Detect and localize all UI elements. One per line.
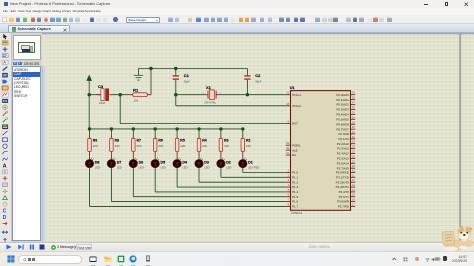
LED D6 (129, 155, 144, 170)
svg-text:R1: R1 (133, 87, 139, 92)
pin P0.3/AD3 (36) (336, 105, 355, 111)
resistor R9 (87, 128, 97, 155)
wire X1 pin2 to XTAL1 (219, 93, 285, 95)
node: rail / R5 (175, 127, 178, 130)
svg-text:R4: R4 (202, 138, 207, 142)
resistor R4 (197, 128, 207, 155)
svg-text:LED-: LED- (226, 165, 232, 169)
svg-text:C: C (3, 208, 7, 214)
wire VCC to C3 (89, 93, 100, 95)
status bar (0, 242, 474, 251)
svg-text:P3.4/T0: P3.4/T0 (338, 190, 349, 194)
op IC U1 AT89C51 body (290, 90, 350, 210)
pin P3.3/INT1 (13) (335, 183, 355, 189)
title bar (0, 0, 474, 8)
menu bar (0, 8, 474, 15)
svg-text:D2: D2 (226, 160, 231, 164)
pin P2.5/A13 (26) (336, 154, 355, 160)
node: R1/ground rail (149, 66, 152, 69)
svg-text:P1.5: P1.5 (292, 194, 298, 198)
svg-text:220: 220 (92, 144, 97, 148)
node: rail / R7 (131, 127, 134, 130)
svg-text:EA: EA (292, 153, 296, 157)
pin P2.6/A14 (27) (336, 159, 355, 165)
svg-text:220: 220 (158, 144, 163, 148)
svg-text:LED-: LED- (182, 165, 188, 169)
pin P3.6/WR (16) (337, 197, 355, 203)
ground symbol (133, 68, 142, 80)
svg-text:P0.5/AD5: P0.5/AD5 (336, 117, 349, 121)
node: rail / R2 (241, 127, 244, 130)
pin P2.3/A11 (24) (337, 144, 355, 150)
resistor R3 (219, 128, 229, 155)
svg-text:220: 220 (246, 144, 251, 148)
svg-text:P3.2/INT0: P3.2/INT0 (335, 180, 349, 184)
svg-text:LED-: LED- (204, 165, 210, 169)
pin P2.4/A12 (25) (336, 149, 355, 155)
svg-text:R6: R6 (158, 138, 163, 142)
svg-text:A: A (3, 163, 7, 169)
svg-text:P2.2/A10: P2.2/A10 (336, 141, 348, 145)
svg-text:D6: D6 (138, 160, 143, 164)
svg-text:220: 220 (136, 144, 141, 148)
wire XTAL2 net (174, 94, 176, 105)
pin P0.2/AD2 (37) (336, 100, 355, 106)
svg-text:D: D (3, 215, 7, 221)
pin P0.1/AD1 (38) (336, 95, 355, 101)
capacitor C2 (244, 68, 262, 94)
svg-text:220: 220 (180, 144, 185, 148)
pin P2.7/A15 (28) (336, 164, 355, 170)
svg-text:P1.4: P1.4 (292, 190, 298, 194)
wire D6 to P1.5 (132, 170, 134, 197)
pin P3.1/TXD (11) (336, 173, 355, 179)
svg-text:C3: C3 (98, 84, 104, 89)
svg-text:P0.4/AD4: P0.4/AD4 (336, 112, 349, 116)
svg-text:C2: C2 (255, 73, 261, 78)
resistor R2 (241, 128, 251, 155)
pin ALE (30) (285, 146, 297, 152)
svg-text:P1.0: P1.0 (292, 170, 298, 174)
object selector panel (12, 33, 42, 243)
svg-text:XTAL2: XTAL2 (292, 104, 301, 108)
LED supply rail (89, 127, 243, 129)
node: rail / R9 (87, 127, 90, 130)
svg-text:10k: 10k (133, 98, 138, 102)
node: rail / R8 (109, 127, 112, 130)
svg-text:AT89C51: AT89C51 (290, 210, 302, 214)
tab bar (0, 24, 474, 33)
svg-text:R7: R7 (136, 138, 141, 142)
resistor R1 (129, 87, 151, 102)
pin P2.0/A8 (21) (338, 129, 355, 135)
svg-text:220: 220 (114, 144, 119, 148)
pin P3.4/T0 (14) (338, 187, 355, 193)
wire VCC vertical to LED rail (88, 94, 90, 128)
svg-text:P3.0/RXD: P3.0/RXD (335, 170, 348, 174)
svg-text:P2.1/A9: P2.1/A9 (338, 137, 349, 141)
pin XTAL2 (18) (285, 101, 300, 107)
svg-text:P3.6/WR: P3.6/WR (337, 199, 349, 203)
svg-text:P0.2/AD2: P0.2/AD2 (336, 102, 349, 106)
svg-text:R5: R5 (180, 138, 185, 142)
pin P2.2/A10 (23) (336, 139, 355, 145)
svg-text:R2: R2 (246, 138, 251, 142)
wire D4 to P1.3 (176, 170, 178, 187)
pin P1.7 (8) (285, 202, 298, 208)
svg-text:XTAL1: XTAL1 (292, 92, 301, 96)
svg-text:P3.3/INT1: P3.3/INT1 (335, 185, 349, 189)
pin P2.1/A9 (22) (338, 134, 355, 140)
svg-text:U1: U1 (289, 85, 294, 89)
svg-text:30pF: 30pF (255, 79, 261, 83)
pin P3.5/T1 (15) (338, 192, 355, 198)
sheet top edge (42, 32, 474, 34)
wire crystal net: C1 to X1 pin1 (175, 93, 204, 95)
pin P3.0/RXD (10) (335, 168, 355, 174)
svg-text:LED-: LED- (116, 165, 122, 169)
resistor R7 (131, 128, 141, 155)
LED D8 (85, 155, 100, 170)
node: C2 bottom / XTAL1 net (245, 93, 248, 96)
svg-text:P3.1/TXD: P3.1/TXD (336, 175, 349, 179)
node: rail / R6 (153, 127, 156, 130)
pin RST (9) (285, 119, 297, 125)
LED D4 (173, 155, 188, 170)
pin P1.4 (5) (285, 187, 298, 193)
schematic canvas (42, 33, 474, 243)
svg-text:P0.3/AD3: P0.3/AD3 (336, 107, 349, 111)
LED D7 (107, 155, 122, 170)
resistor R5 (175, 128, 185, 155)
svg-text:C1: C1 (183, 73, 189, 78)
svg-text:D4: D4 (182, 160, 187, 164)
svg-text:P3.5/T1: P3.5/T1 (338, 194, 349, 198)
svg-text:P1.2: P1.2 (292, 180, 298, 184)
svg-text:P0.1/AD1: P0.1/AD1 (336, 97, 349, 101)
wire RST net (119, 94, 121, 123)
svg-text:D7: D7 (116, 160, 121, 164)
svg-text:P1.1: P1.1 (292, 175, 298, 179)
LED D1 (238, 155, 259, 170)
svg-text:P2.3/A11: P2.3/A11 (337, 146, 349, 150)
pin P0.6/AD6 (33) (336, 120, 355, 126)
pin XTAL1 (19) (285, 90, 300, 96)
node: rail / R3 (219, 127, 222, 130)
svg-text:LED-: LED- (94, 165, 100, 169)
svg-text:LED-: LED- (160, 165, 166, 169)
LED D3 (194, 155, 209, 170)
svg-text:P3.7/RD: P3.7/RD (337, 204, 348, 208)
svg-text:PSEN: PSEN (292, 143, 300, 147)
LED D5 (151, 155, 166, 170)
pin P1.1 (2) (285, 173, 298, 179)
wire D7 to P1.6 (110, 170, 112, 202)
svg-text:LED-RED: LED-RED (248, 165, 260, 169)
node: C1 / ground rail (174, 66, 177, 69)
svg-text:220: 220 (202, 144, 207, 148)
svg-text:R8: R8 (114, 138, 119, 142)
node: RST net junction (118, 93, 121, 96)
svg-text:P2.6/A14: P2.6/A14 (336, 161, 348, 165)
node: C1 bottom / XTAL2 net (174, 93, 177, 96)
pin P1.3 (4) (285, 183, 298, 189)
svg-text:D8: D8 (94, 160, 99, 164)
svg-text:30pF: 30pF (183, 79, 189, 83)
svg-text:P0.6/AD6: P0.6/AD6 (336, 122, 349, 126)
pin P0.7/AD7 (32) (336, 125, 355, 131)
desktop pet dog (440, 223, 474, 251)
wire R1 up to ground rail (150, 68, 152, 94)
windows taskbar (0, 251, 474, 266)
svg-text:D1: D1 (248, 160, 253, 164)
svg-text:LED-: LED- (138, 165, 144, 169)
svg-text:RST: RST (292, 121, 298, 125)
power terminal VCC (86, 75, 91, 94)
svg-text:R9: R9 (92, 138, 97, 142)
wire D3 to P1.2 (198, 170, 200, 182)
svg-text:A: A (3, 59, 6, 64)
wire D2 to P1.1 (219, 170, 221, 177)
crystal X1 (202, 85, 221, 104)
wire D5 to P1.4 (154, 170, 156, 192)
pin EA (31) (285, 151, 295, 157)
svg-text:X1: X1 (206, 85, 212, 90)
svg-text:ALE: ALE (292, 148, 298, 152)
svg-text:P1.3: P1.3 (292, 185, 298, 189)
svg-text:P2.5/A13: P2.5/A13 (336, 156, 348, 160)
node: VCC / C3 junction (87, 93, 90, 96)
capacitor C1 (172, 68, 190, 94)
svg-text:CRYSTAL: CRYSTAL (204, 100, 216, 104)
resistor R6 (153, 128, 163, 155)
resistor R8 (109, 128, 119, 155)
svg-text:P0.7/AD7: P0.7/AD7 (336, 127, 349, 131)
svg-text:D5: D5 (160, 160, 165, 164)
capacitor C3 (electrolytic) (96, 84, 112, 105)
pin P0.4/AD4 (35) (336, 110, 355, 116)
svg-text:R3: R3 (224, 138, 229, 142)
pin P0.0/AD0 (39) (336, 90, 355, 96)
wire D1 to P1.0 (241, 170, 243, 173)
svg-text:P1.7: P1.7 (292, 204, 298, 208)
svg-text:220: 220 (224, 144, 229, 148)
svg-text:10uF: 10uF (99, 100, 106, 104)
pin PSEN (29) (285, 141, 299, 147)
LED D2 (216, 155, 231, 170)
svg-text:P0.0/AD0: P0.0/AD0 (336, 92, 349, 96)
pin P3.7/RD (17) (337, 202, 355, 208)
sheet right border (459, 33, 461, 242)
svg-text:P1.6: P1.6 (292, 199, 298, 203)
wire D8 to P1.7 (88, 170, 90, 206)
toolbar (0, 15, 474, 24)
pin P1.2 (3) (285, 178, 298, 184)
node: rail / R4 (197, 127, 200, 130)
pin P1.0 (1) (285, 168, 298, 174)
wire C3 to R1 (112, 93, 129, 95)
pin P1.6 (7) (285, 197, 298, 203)
svg-text:P2.4/A12: P2.4/A12 (336, 151, 348, 155)
ground rail wire (138, 67, 247, 69)
svg-text:D3: D3 (204, 160, 209, 164)
pin P3.2/INT0 (12) (335, 178, 355, 184)
svg-text:P2.0/A8: P2.0/A8 (338, 132, 349, 136)
left mode toolbar (0, 33, 12, 243)
pin P0.5/AD5 (34) (336, 115, 355, 121)
pin P1.5 (6) (285, 192, 298, 198)
